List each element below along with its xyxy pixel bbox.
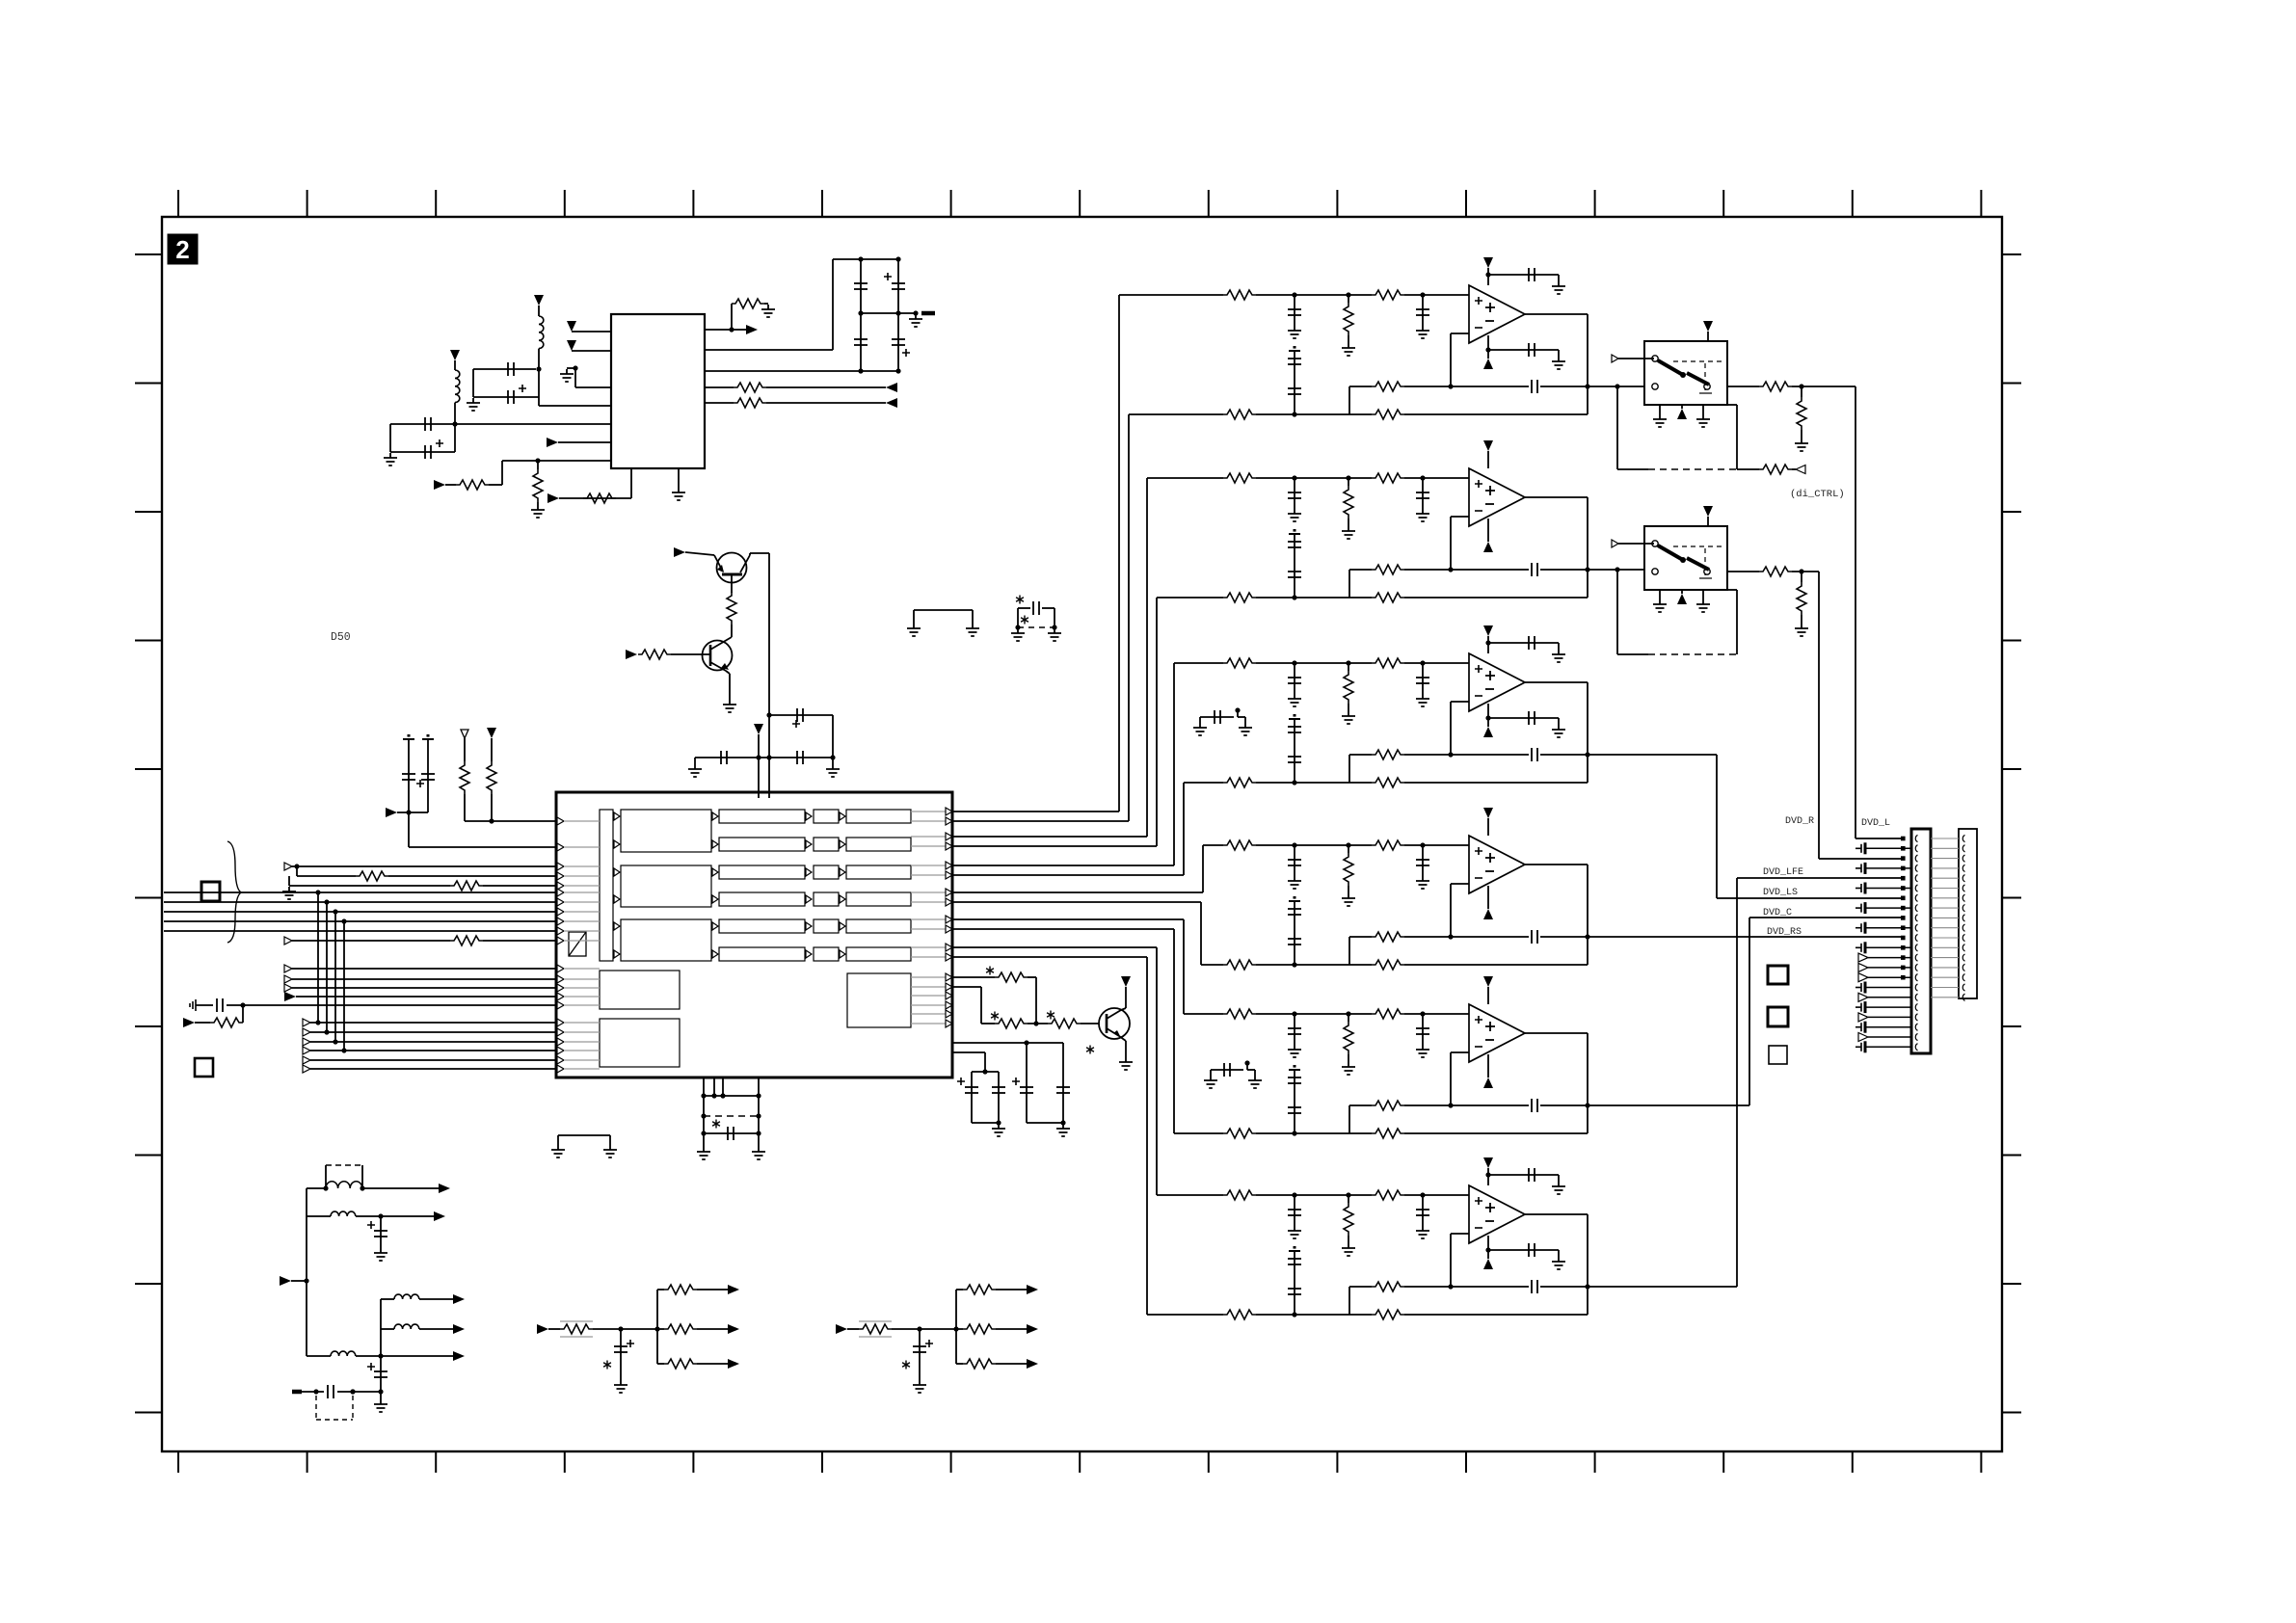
channel6 supply bypass cap bottom <box>1485 1247 1490 1252</box>
resistor R10 <box>487 761 496 794</box>
resistor R2 to ground <box>537 461 539 469</box>
input pin arrow 1025 <box>284 984 292 992</box>
channel1 resistor Rc to ground <box>1348 295 1349 303</box>
connector CN2 contacts <box>1962 835 1964 1000</box>
channel2 input bus wire <box>952 836 1147 838</box>
capacitor C1 <box>473 368 536 370</box>
fan network 1 resistor c <box>657 1363 664 1365</box>
U1 out pin c wire <box>705 370 898 372</box>
capacitor C8 electrolytic <box>897 313 899 371</box>
channel1 lower input bus wire <box>952 820 1129 822</box>
channel2 feedback network <box>1451 516 1469 518</box>
DSP right block to edge wires <box>911 977 949 1024</box>
channel3 input bus wire <box>952 865 1174 866</box>
channel4 lower input bus wire <box>952 901 1201 903</box>
transistor Q2 <box>703 641 733 671</box>
U1 bottom ground <box>678 468 680 488</box>
transistor Q1 <box>717 553 747 583</box>
asterisk mark <box>712 1120 720 1129</box>
channel1 capacitor chain Cb Cc <box>1289 350 1300 352</box>
wire U1 pin7 <box>538 460 611 462</box>
U1 out pin a <box>705 329 732 331</box>
bottom stub row <box>292 1390 302 1395</box>
channel6 resistor Re <box>1372 1310 1404 1319</box>
relay K1 load resistor <box>1801 386 1802 397</box>
DSP inter-block arrows <box>614 812 845 958</box>
channel5 output wire <box>1525 1032 1588 1034</box>
relay K2 coil grounds <box>1659 590 1661 599</box>
fan network 1 resistor a <box>657 1289 664 1290</box>
inductor L6 <box>381 1328 394 1330</box>
channel1 feedback network <box>1451 333 1469 334</box>
channel4 feedback network <box>1451 883 1469 885</box>
input pin arrow 899 <box>284 863 292 870</box>
input arrow Q1 base <box>674 547 685 557</box>
fan network 2 resistor c <box>956 1363 963 1365</box>
channel1 resistor Re <box>1372 410 1404 419</box>
channel6 capacitor Cd to ground <box>1422 1195 1424 1226</box>
fan network 1 fusible resistor <box>560 1324 593 1334</box>
channel2 resistor Rb <box>1372 473 1404 483</box>
power arrow V1 <box>534 295 544 306</box>
resistor R4 to ground <box>731 304 733 330</box>
DSP left edge to blocks wires <box>564 821 600 1069</box>
channel5 resistor Rc to ground <box>1348 1014 1349 1022</box>
channel2 op-amp <box>1469 468 1525 526</box>
bus wire 956 <box>164 920 556 922</box>
channel1 input bus wire <box>952 811 1119 812</box>
inductor L3 with shield <box>307 1187 326 1189</box>
DSP left edge pins <box>557 817 564 1073</box>
resistor R15 <box>1048 1019 1081 1028</box>
wire to DSP pin 879 <box>408 812 410 847</box>
relay K2 box <box>1644 526 1727 590</box>
cap bank mid rail <box>861 312 916 314</box>
input arrow U1 pin6 <box>547 438 558 447</box>
node L1/C1 <box>536 366 541 371</box>
svg-text:DVD_LFE: DVD_LFE <box>1763 867 1803 878</box>
input pin arrow 1061 <box>303 1019 310 1026</box>
svg-text:DVD_RS: DVD_RS <box>1767 927 1802 938</box>
capacitor C12 <box>704 1132 759 1134</box>
dashed cap net <box>1016 596 1024 604</box>
channel5 positive supply <box>1483 976 1493 987</box>
inductor L2 <box>455 370 460 403</box>
channel3 feedback network <box>1451 701 1469 703</box>
channel2 lower input bus wire <box>952 845 1157 847</box>
svg-text:D50: D50 <box>331 631 351 644</box>
Q2 emitter ground <box>726 671 730 674</box>
transistor Q3 <box>1099 1008 1130 1039</box>
channel1 op-amp <box>1469 285 1525 343</box>
channel6 capacitor Ca to ground <box>1294 1195 1295 1226</box>
channel1 capacitor Cd to ground <box>1422 295 1424 326</box>
fan network 2 resistor b <box>956 1328 963 1330</box>
channel4 resistor Rb <box>1372 840 1404 850</box>
relay K1 output resistor <box>1727 386 1759 387</box>
channel6 capacitor chain Cb Cc <box>1289 1250 1300 1252</box>
channel5 lower input bus wire <box>952 928 1174 930</box>
resistor R9 <box>460 761 469 794</box>
wire C9 down <box>832 715 834 758</box>
node V3 cap row <box>756 755 761 759</box>
channel3 supply bypass cap top <box>1485 640 1490 645</box>
capacitor C13 electrolytic <box>971 1072 973 1123</box>
relay K2 contacts <box>1652 541 1658 546</box>
DSP control block B <box>600 1019 680 1067</box>
DSP filter column 3 blocks <box>814 810 839 823</box>
resistor R7 <box>583 493 616 503</box>
cap pair 2 bottom <box>1027 1122 1063 1124</box>
input pin arrow 1100 <box>303 1056 310 1064</box>
cap gnd pair B <box>1210 1070 1212 1076</box>
channel6 resistor Rc to ground <box>1348 1195 1349 1203</box>
channel4 resistor Re <box>1372 960 1404 970</box>
bus wire 926 <box>164 891 556 893</box>
cap pair 1 bottom <box>972 1122 999 1124</box>
channel5 feedback network <box>1451 1051 1469 1053</box>
relay K1 power arrow <box>1703 321 1713 332</box>
power arrow V5 <box>1121 976 1131 987</box>
node cap bank top <box>858 256 863 261</box>
ground C4 <box>384 453 397 466</box>
channel5 capacitor chain Cb Cc <box>1289 1069 1300 1071</box>
capacitor C17 electrolytic <box>380 1216 382 1248</box>
channel6 negative supply <box>1487 1236 1489 1259</box>
connector box J1 <box>201 882 220 901</box>
channel6 input bus wire <box>952 946 1157 948</box>
bus branch verticals <box>315 890 320 894</box>
connector CN1 <box>1911 829 1931 1053</box>
ground C12 right <box>752 1147 765 1159</box>
channel6 resistor Ra <box>1223 1190 1256 1200</box>
resistor R8 <box>731 575 733 593</box>
channel2 output to relay <box>1588 569 1644 571</box>
U1 out pin b wire <box>705 349 833 351</box>
bus wire 946 <box>164 911 556 913</box>
inductor L7 <box>307 1355 331 1357</box>
resistor R11 row <box>294 864 299 868</box>
frame ruler tick marks <box>135 190 2021 1473</box>
fan network 1 input arrow <box>537 1324 548 1334</box>
fan bus <box>380 1299 382 1356</box>
channel2 resistor Re <box>1372 593 1404 602</box>
ground bridge B <box>914 609 973 611</box>
DSP DAC symbol <box>569 932 586 956</box>
capacitor C15 electrolytic <box>1026 1043 1028 1123</box>
option box S2 <box>1768 1007 1788 1026</box>
channel3 resistor Re <box>1372 778 1404 787</box>
fan network 1 branch bus <box>656 1290 658 1364</box>
capacitor C18 electrolytic <box>380 1356 382 1392</box>
channel1 supply bypass cap top <box>1485 272 1490 277</box>
channel3 positive supply <box>1483 625 1493 636</box>
svg-text:DVD_R: DVD_R <box>1785 816 1814 827</box>
channel4 resistor Rd <box>1223 960 1256 970</box>
input arrow R3 net <box>434 480 445 490</box>
channel2 resistor Rd <box>1223 593 1256 602</box>
relay K2 switch arms <box>1658 545 1683 560</box>
U1 bottom pin wire <box>630 468 632 498</box>
channel5 resistor Re <box>1372 1129 1404 1138</box>
channel5 resistor Rd <box>1223 1129 1256 1138</box>
channel3 capacitor Cd to ground <box>1422 663 1424 694</box>
svg-text:DVD_C: DVD_C <box>1763 908 1792 918</box>
DSP right edge pins <box>946 808 952 1027</box>
channel2 negative supply <box>1487 519 1489 542</box>
ground C10 right <box>832 758 834 764</box>
channel6 output route <box>1588 1286 1737 1288</box>
power arrow V4 <box>487 728 496 738</box>
DVD_L route <box>1855 386 1856 838</box>
di_CTRL resistor <box>1737 468 1759 470</box>
channel2 capacitor Ca to ground <box>1294 478 1295 509</box>
inductor L4 <box>307 1215 331 1217</box>
power arrow V3 <box>754 724 763 734</box>
channel2 resistor Rc to ground <box>1348 478 1349 486</box>
resistor R14 <box>981 1023 995 1024</box>
channel2 capacitor chain Cb Cc <box>1289 533 1300 535</box>
wire to DSP pin 852 <box>465 820 556 822</box>
capacitor C9 electrolytic <box>769 714 833 716</box>
resistor R6 out <box>705 402 734 404</box>
channel3 resistor Rc to ground <box>1348 663 1349 671</box>
testpoint cap TP1 <box>403 738 414 740</box>
channel4 capacitor chain Cb Cc <box>1289 900 1300 902</box>
IC U1 <box>611 314 705 468</box>
channel4 capacitor Ca to ground <box>1294 845 1295 876</box>
DSP right interface block <box>847 973 911 1027</box>
channel5 resistor Rb <box>1372 1009 1404 1019</box>
option box S1 <box>1768 966 1788 984</box>
channel5 op-amp <box>1469 1004 1525 1062</box>
channel4 negative supply <box>1487 886 1489 909</box>
capacitor C5 <box>860 259 862 313</box>
channel3 capacitor chain Cb Cc <box>1289 718 1300 720</box>
channel6 op-amp <box>1469 1185 1525 1243</box>
input arrow 1034 <box>284 992 296 1001</box>
channel1 supply bypass cap bottom <box>1485 347 1490 352</box>
svg-text:2: 2 <box>175 235 189 264</box>
lower bus nodes <box>315 1020 320 1024</box>
fan network 2 input arrow <box>836 1324 847 1334</box>
relay K1 coil grounds <box>1659 405 1661 414</box>
input arrow R13 <box>183 1018 195 1027</box>
channel4 resistor Ra <box>1223 840 1256 850</box>
input pin arrow 1071 <box>303 1028 310 1036</box>
ground C2 <box>467 398 480 411</box>
channel1 negative supply <box>1487 335 1489 359</box>
channel1 output wire <box>1525 313 1588 315</box>
input pin arrow 1081 <box>303 1038 310 1046</box>
channel1 resistor Ra <box>1223 290 1256 300</box>
cap gnd pair A <box>1199 717 1201 723</box>
channel1 resistor Rb <box>1372 290 1404 300</box>
capacitor C3 <box>390 423 455 425</box>
DVD_R route <box>1818 572 1820 859</box>
capacitor C2 electrolytic <box>473 396 539 398</box>
capacitor C4 electrolytic <box>390 451 455 453</box>
fan network 2 branch bus <box>955 1290 957 1364</box>
decoupling box dashed <box>703 1096 705 1147</box>
DSP col4 to edge wires <box>911 811 949 957</box>
channel3 resistor Rb <box>1372 658 1404 668</box>
wire U1 pin5 <box>455 423 611 425</box>
relay K2 output resistor <box>1727 571 1759 572</box>
sheet number 2 label <box>168 234 198 264</box>
ground C18 <box>380 1392 382 1399</box>
DSP filter column 4 blocks <box>846 810 911 823</box>
channel6 resistor Rd <box>1223 1310 1256 1319</box>
open arrow marker <box>461 730 468 738</box>
connector box J2 <box>195 1058 213 1077</box>
relay K1 box <box>1644 341 1727 405</box>
chassis stub <box>189 1003 191 1007</box>
input pin arrow 1109 <box>303 1065 310 1073</box>
channel5 input bus wire <box>952 918 1184 920</box>
capacitor C14 <box>998 1072 1000 1123</box>
connector CN2 <box>1959 829 1977 998</box>
fan network 2 resistor a <box>956 1289 963 1290</box>
channel5 resistor Ra <box>1223 1009 1256 1019</box>
channel3 capacitor Ca to ground <box>1294 663 1295 694</box>
bus stub mark <box>921 311 935 316</box>
DSP control block A <box>600 971 680 1009</box>
fan network 1 resistor b <box>657 1328 664 1330</box>
channel6 feedback network <box>1451 1233 1469 1235</box>
relay K2 dashed linkage <box>1673 545 1724 547</box>
fan network 2 capacitor electrolytic <box>919 1329 921 1380</box>
ground C12 left <box>697 1147 710 1159</box>
relay K1 switch arms <box>1658 360 1683 375</box>
relay K1 contacts <box>1652 356 1658 361</box>
capacitor C16 <box>1062 1072 1064 1123</box>
relay K1 dashed linkage <box>1673 360 1724 362</box>
capacitor C7 <box>860 313 862 371</box>
wire U1 pin4 <box>539 405 611 407</box>
channel6 lower input bus wire <box>952 956 1147 958</box>
capacitor C10 row <box>695 757 833 758</box>
resistor R12 row <box>288 876 290 886</box>
brace <box>227 841 241 943</box>
inductor L1 <box>539 316 544 349</box>
channel5 negative supply <box>1487 1054 1489 1078</box>
capacitor C11 <box>196 1004 213 1006</box>
DSP filter column 2 blocks <box>719 810 805 823</box>
input arrow bottom net <box>280 1276 291 1286</box>
channel4 capacitor Cd to ground <box>1422 845 1424 876</box>
power arrow to U1 pin2 <box>567 340 576 351</box>
channel3 op-amp <box>1469 653 1525 711</box>
svg-text:DVD_LS: DVD_LS <box>1763 888 1798 898</box>
channel3 output wire <box>1525 681 1588 683</box>
wire DSP 1024 <box>952 986 981 988</box>
channel6 output wire <box>1525 1213 1588 1215</box>
DSP IC U2 <box>556 792 952 1078</box>
channel4 output wire <box>1525 864 1588 865</box>
channel5 capacitor Ca to ground <box>1294 1014 1295 1045</box>
vertical bus Q1 to IC <box>768 553 770 798</box>
input pin arrow 1016 <box>284 975 292 983</box>
connector CN1 pin rows <box>1855 837 1911 1053</box>
dashed box bottom <box>315 1396 317 1420</box>
Q2 collector wire <box>731 636 733 637</box>
channel2 capacitor Cd to ground <box>1422 478 1424 509</box>
bottom net bus <box>306 1188 307 1356</box>
relay K2 shield box <box>1616 572 1618 654</box>
channel1 output to relay <box>1588 386 1644 387</box>
bus wire 966 <box>164 930 556 932</box>
channel4 output route <box>1588 936 1903 938</box>
channel3 lower input bus wire <box>952 874 1184 876</box>
channel3 output route <box>1588 754 1717 756</box>
power arrow to U1 pin1 <box>567 321 576 332</box>
channel3 negative supply <box>1487 704 1489 727</box>
fan network 2 fusible resistor <box>859 1324 892 1334</box>
channel4 resistor Rc to ground <box>1348 845 1349 853</box>
svg-text:(di_CTRL): (di_CTRL) <box>1790 489 1845 500</box>
channel4 op-amp <box>1469 836 1525 893</box>
capacitor C6 electrolytic <box>897 259 899 313</box>
input pin arrow 1090 <box>303 1047 310 1054</box>
channel6 positive supply <box>1483 1157 1493 1168</box>
bus wire 936 <box>164 901 556 903</box>
channel5 capacitor Cd to ground <box>1422 1014 1424 1045</box>
channel3 supply bypass cap bottom <box>1485 715 1490 720</box>
channel1 resistor Rd <box>1223 410 1256 419</box>
node L2/C3 <box>452 421 457 426</box>
fan network 1 capacitor electrolytic <box>620 1329 622 1380</box>
relay K2 load resistor <box>1801 572 1802 582</box>
connector interconnect wires <box>1931 838 1959 998</box>
page frame border <box>162 217 2002 1451</box>
channel2 positive supply <box>1483 440 1493 451</box>
ground node at U1 pin3 <box>573 365 577 370</box>
channel3 resistor Ra <box>1223 658 1256 668</box>
input arrow Q2 base <box>626 650 637 659</box>
inductor L5 <box>381 1298 394 1300</box>
input arrow to cap node <box>386 808 397 817</box>
channel3 resistor Rd <box>1223 778 1256 787</box>
relay K2 control input <box>1612 540 1618 547</box>
cap pair 1 feed <box>952 1051 985 1053</box>
Q3 emitter ground <box>1119 1036 1126 1041</box>
option box S3 <box>1769 1046 1787 1064</box>
power arrow V2 <box>450 350 460 360</box>
DSP bottom pins <box>703 1078 705 1096</box>
input pin arrow 1005 <box>284 965 292 972</box>
asterisk marks Q3 <box>986 967 994 975</box>
channel5 output route <box>1588 1104 1749 1106</box>
channel4 input bus wire <box>952 891 1203 893</box>
DSP filter column 1 blocks <box>621 810 711 852</box>
channel4 positive supply <box>1483 808 1493 818</box>
channel6 resistor Rb <box>1372 1190 1404 1200</box>
Q1 collector wire <box>749 553 751 555</box>
relay K1 control input <box>1612 355 1618 362</box>
relay K2 power arrow <box>1703 506 1713 517</box>
resistor R5 out <box>705 386 734 388</box>
input pin arrow 976 <box>284 937 292 945</box>
channel1 positive supply <box>1483 257 1493 268</box>
ground C10 left <box>694 758 696 764</box>
connector CN1 contacts <box>1915 835 1917 1050</box>
relay K1 shield box <box>1616 386 1618 469</box>
cap pair 2 feed <box>952 1042 1063 1044</box>
wire DSP 1014 <box>952 976 995 978</box>
svg-text:DVD_L: DVD_L <box>1861 818 1890 829</box>
channel2 output wire <box>1525 496 1588 498</box>
